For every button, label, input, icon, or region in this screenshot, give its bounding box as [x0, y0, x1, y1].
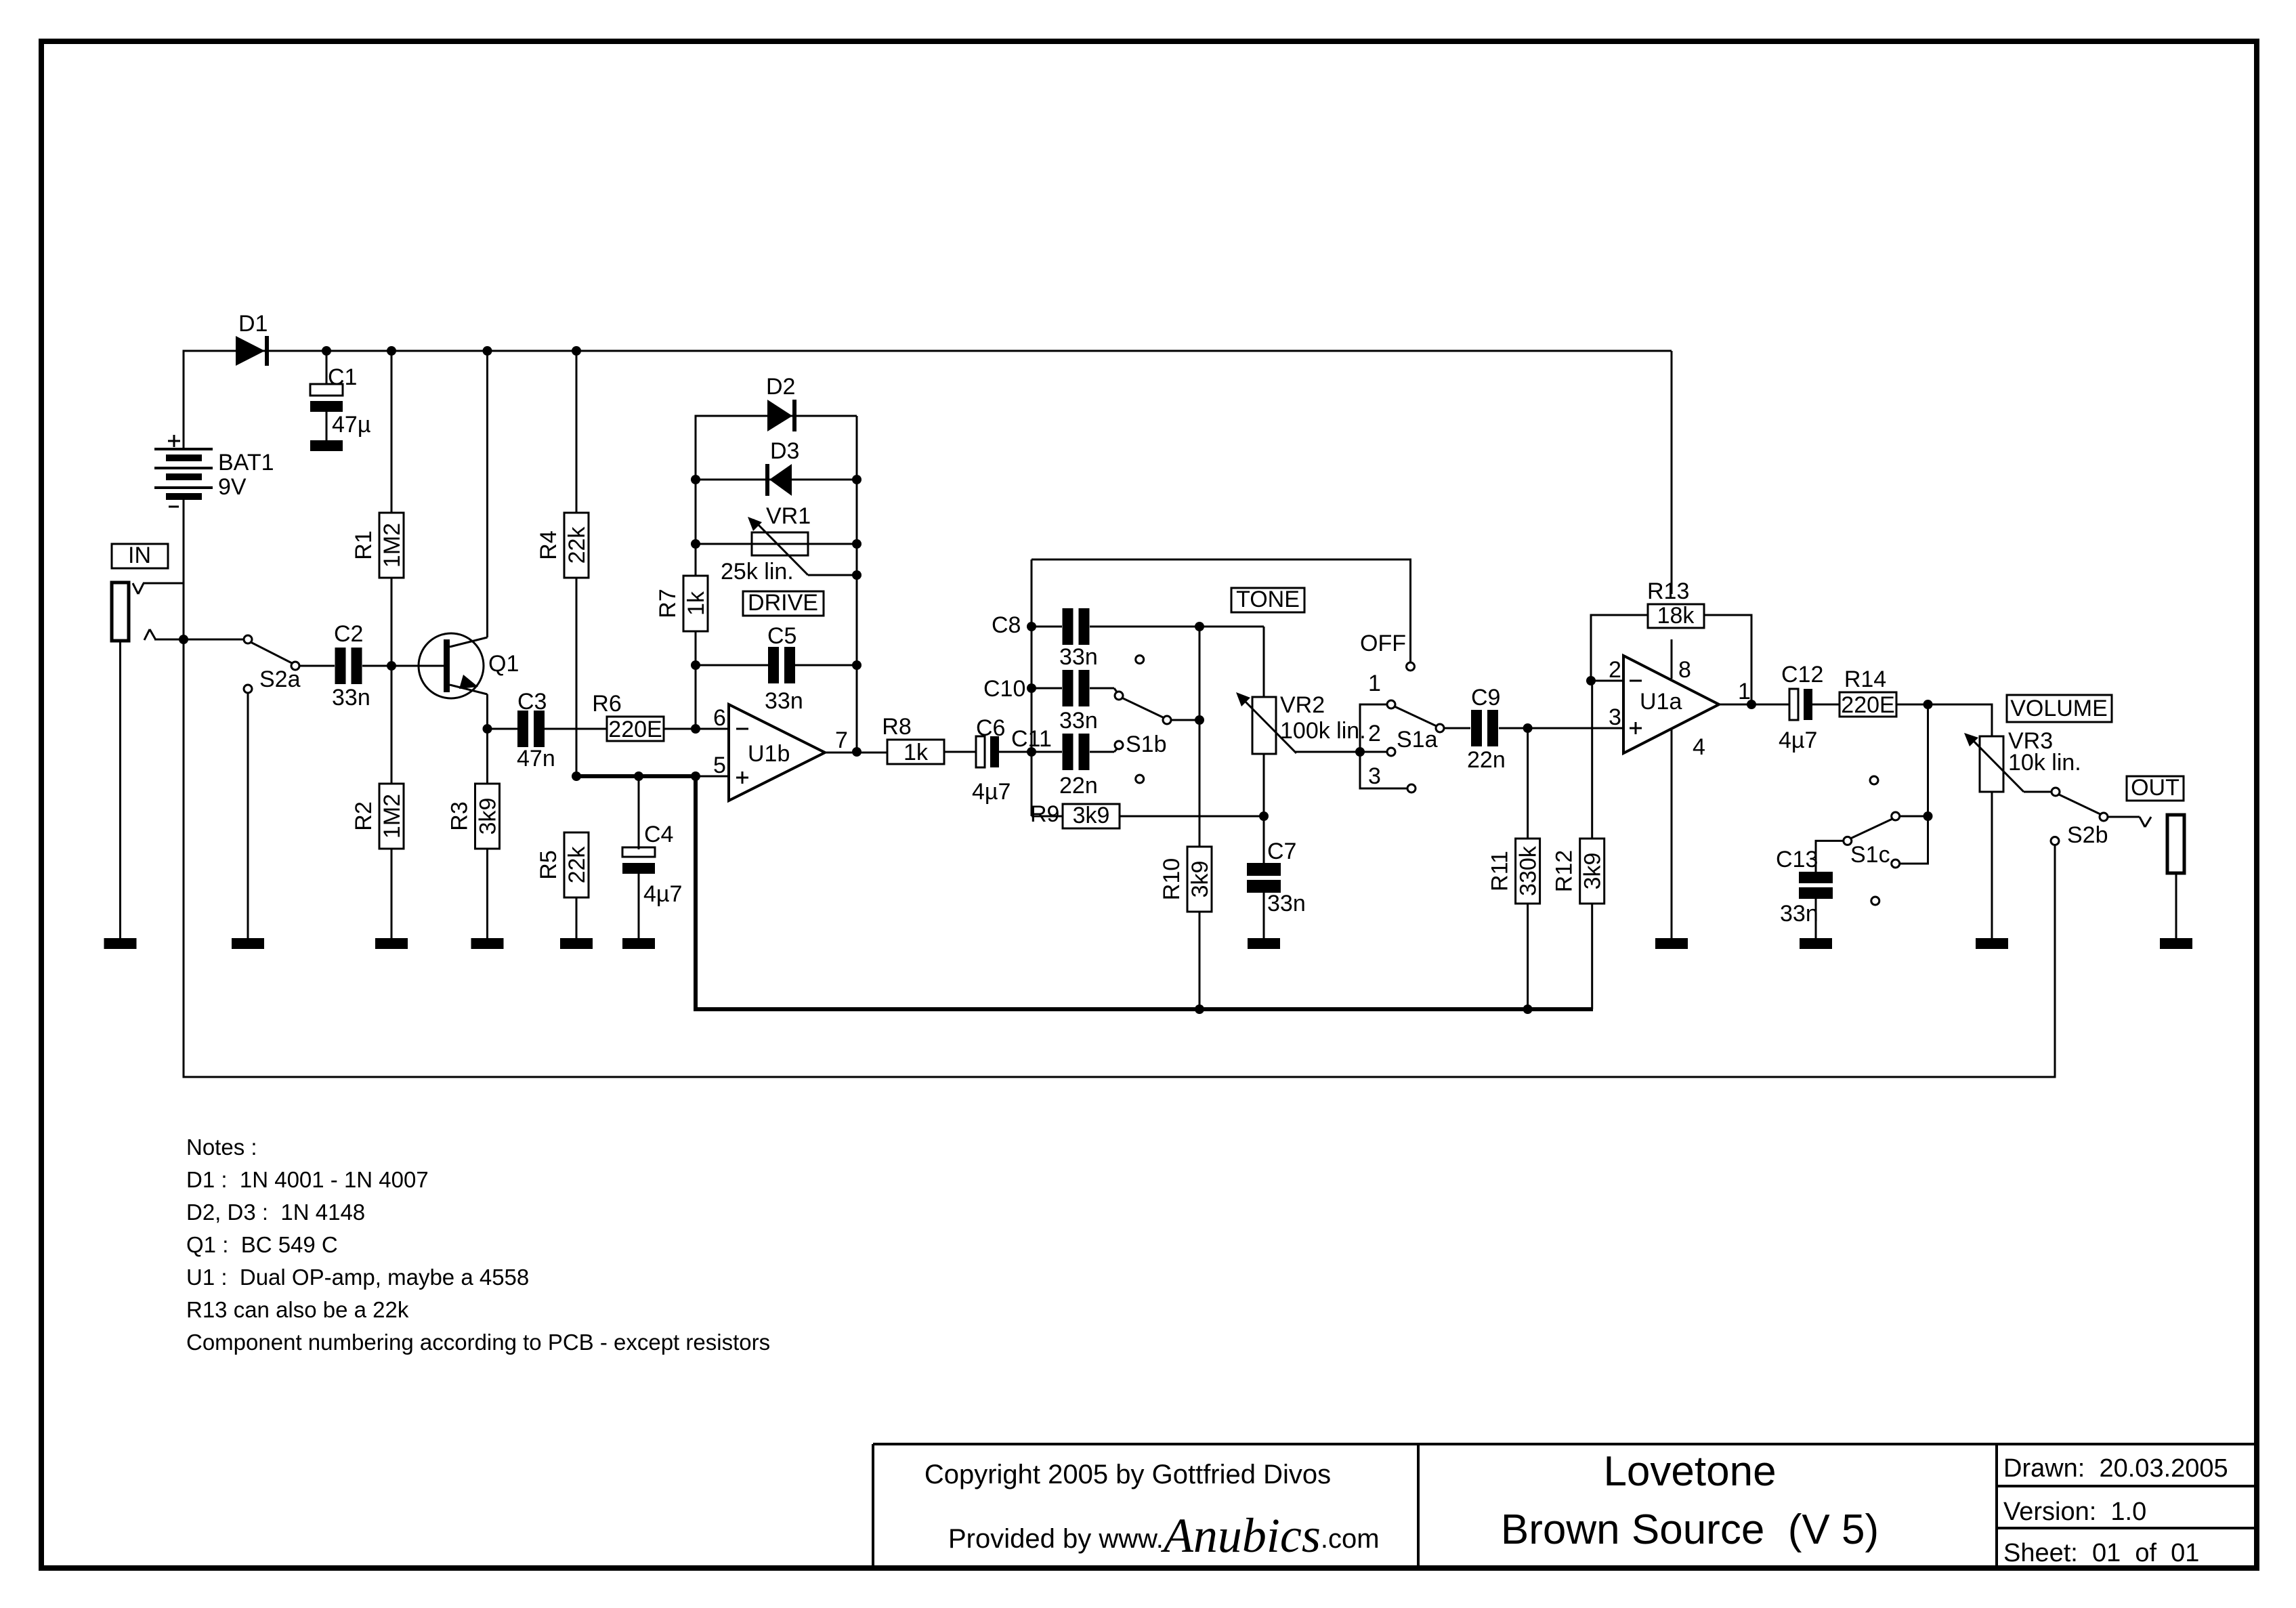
resistor R5 [536, 832, 590, 938]
ground [1655, 938, 1688, 949]
wire [1991, 792, 1993, 938]
switch S1a [1360, 631, 1444, 792]
switch S1b [1115, 656, 1171, 783]
wire [695, 665, 697, 729]
wire [1896, 704, 1992, 736]
ground [104, 938, 137, 949]
wire [1816, 841, 1844, 872]
wire [119, 641, 121, 938]
ground [375, 938, 408, 949]
wire feedback left [1591, 615, 1648, 681]
svg-text:BAT1: BAT1 [218, 450, 274, 475]
svg-text:R13 can also be a 22k: R13 can also be a 22k [186, 1297, 409, 1322]
svg-text:D1: D1 [238, 311, 268, 337]
svg-text:U1 : Dual OP-amp, maybe a 455: U1 : Dual OP-amp, maybe a 4558 [186, 1265, 529, 1290]
transistor Q1 [419, 633, 519, 698]
op-amp U1b [713, 704, 848, 801]
svg-text:Lovetone: Lovetone [1603, 1448, 1776, 1495]
svg-text:47µ: 47µ [332, 412, 370, 438]
svg-text:VR2: VR2 [1280, 692, 1325, 718]
svg-text:OUT: OUT [2131, 775, 2180, 801]
node vref C4 [634, 771, 643, 781]
wire [1120, 816, 1264, 818]
svg-text:33n: 33n [1780, 901, 1819, 927]
node pin2 [1586, 676, 1596, 685]
wire [695, 480, 697, 544]
svg-text:8: 8 [1678, 657, 1691, 683]
svg-text:R8: R8 [882, 714, 911, 740]
svg-text:C13: C13 [1776, 847, 1818, 872]
capacitor C12 [1779, 662, 1823, 753]
wire [299, 665, 335, 667]
node C9 out [1523, 723, 1533, 733]
svg-text:3: 3 [1368, 763, 1381, 789]
wire [696, 543, 857, 545]
wire [247, 693, 249, 938]
svg-text:Notes :: Notes : [186, 1135, 257, 1160]
node C8 left [1027, 622, 1036, 631]
svg-text:22n: 22n [1059, 773, 1098, 799]
svg-text:R2: R2 [351, 801, 377, 830]
DRIVE label box [743, 590, 824, 616]
capacitor C7 [1247, 816, 1306, 938]
svg-text:3k9: 3k9 [1187, 861, 1213, 898]
wire [2140, 817, 2151, 827]
resistor R13 [1647, 578, 1704, 629]
svg-text:330k: 330k [1516, 845, 1542, 896]
svg-text:R14: R14 [1844, 667, 1886, 692]
wire bypass run [184, 639, 2055, 1077]
svg-text:1: 1 [1368, 671, 1381, 696]
capacitor C1 [310, 351, 370, 440]
svg-text:Version: 1.0: Version: 1.0 [2003, 1498, 2146, 1526]
node pin7 [852, 747, 862, 757]
svg-text:7: 7 [835, 727, 848, 753]
node vref corner [691, 771, 700, 781]
capacitor C8 [992, 608, 1098, 670]
svg-text:C3: C3 [517, 689, 547, 715]
svg-text:1k: 1k [683, 591, 709, 616]
wire [1032, 626, 1062, 628]
node VR1 right [852, 539, 862, 549]
svg-text:R3: R3 [447, 801, 473, 830]
ground [560, 938, 593, 949]
wire [486, 694, 488, 729]
svg-text:OFF: OFF [1360, 631, 1406, 656]
svg-text:Component numbering according: Component numbering according to PCB - e… [186, 1330, 770, 1355]
switch S2a [244, 635, 301, 693]
svg-text:R4: R4 [536, 530, 561, 559]
node VR1 left [691, 539, 700, 549]
svg-text:4µ7: 4µ7 [1779, 727, 1817, 753]
node pin1 [1747, 700, 1756, 709]
node S1a common [1355, 747, 1365, 757]
capacitor C6 [972, 715, 1011, 805]
resistor R6 [592, 691, 664, 742]
svg-text:25k lin.: 25k lin. [721, 559, 794, 585]
svg-text:4: 4 [1693, 734, 1705, 760]
ground [2160, 938, 2192, 949]
wire [144, 629, 155, 640]
wire [944, 751, 976, 753]
resistor R1 [351, 351, 405, 666]
svg-text:U1b: U1b [748, 741, 790, 767]
capacitor C10 [983, 670, 1098, 734]
wire [2175, 873, 2177, 938]
svg-text:2: 2 [1609, 657, 1621, 683]
svg-text:S1a: S1a [1397, 727, 1438, 753]
svg-text:D1 : 1N 4001 - 1N 4007: D1 : 1N 4001 - 1N 4007 [186, 1167, 429, 1192]
wire [825, 752, 887, 754]
wire rail down to pin8 [1671, 351, 1673, 594]
node VR1 wiper right [852, 570, 862, 580]
resistor R8 [882, 714, 944, 765]
wire [696, 416, 857, 480]
node on rail at R1 [387, 346, 396, 356]
node volume top [1923, 700, 1933, 709]
battery BAT1 9V [154, 435, 274, 507]
node VR2 bottom [1259, 811, 1269, 821]
input jack [112, 583, 129, 641]
resistor R11 [1487, 728, 1542, 1009]
svg-text:4µ7: 4µ7 [972, 779, 1011, 805]
wire feedback right [1704, 615, 1751, 704]
svg-text:Q1 : BC 549 C: Q1 : BC 549 C [186, 1232, 338, 1257]
wire [1171, 719, 1199, 721]
capacitor C2 [332, 621, 370, 711]
svg-text:C8: C8 [992, 612, 1021, 638]
capacitor C9 [1467, 685, 1506, 773]
svg-text:18k: 18k [1657, 603, 1695, 629]
diode D1 [236, 311, 269, 366]
wire [1591, 680, 1623, 682]
node pin6 [691, 724, 700, 734]
capacitor C11 [1011, 726, 1098, 799]
capacitor C3 [517, 689, 555, 771]
svg-text:1M2: 1M2 [379, 794, 405, 839]
resistor R12 [1552, 681, 1606, 1009]
wire wiper VR1 [808, 574, 857, 576]
VOLUME label box [2007, 695, 2112, 722]
svg-text:TONE: TONE [1236, 587, 1300, 612]
IN label box [112, 543, 168, 568]
op-amp U1a [1609, 656, 1751, 760]
svg-text:22n: 22n [1467, 747, 1506, 773]
resistor R14 [1840, 667, 1896, 718]
wire [2108, 816, 2140, 818]
resistor R10 [1159, 847, 1213, 1009]
wire [486, 351, 488, 637]
wire vref bus thick [576, 776, 1593, 1009]
wire pin8 stub [1671, 639, 1673, 679]
node on rail at C1 [322, 346, 331, 356]
node C8 right [1195, 622, 1204, 631]
svg-text:33n: 33n [1059, 644, 1098, 670]
svg-text:9V: 9V [218, 474, 247, 500]
wire [696, 776, 729, 778]
svg-text:R10: R10 [1159, 858, 1185, 900]
svg-text:C12: C12 [1781, 662, 1823, 687]
wire [1090, 688, 1118, 693]
resistor R7 [655, 544, 709, 665]
svg-text:C6: C6 [976, 715, 1005, 741]
diode D2 [766, 374, 796, 431]
node on rail at Q1 collector [483, 346, 492, 356]
svg-text:C7: C7 [1267, 839, 1296, 864]
ground [310, 440, 343, 451]
ground [1248, 938, 1280, 949]
svg-text:S1b: S1b [1126, 732, 1167, 757]
switch S1c [1844, 776, 1900, 905]
svg-text:R13: R13 [1647, 578, 1689, 604]
node base [387, 661, 396, 671]
OUT label box [2127, 775, 2184, 801]
svg-text:33n: 33n [1059, 708, 1098, 734]
svg-text:VOLUME: VOLUME [2010, 696, 2108, 721]
diode D3 [765, 438, 799, 496]
wire [795, 664, 857, 667]
node S1b pole [1195, 715, 1204, 725]
svg-text:33n: 33n [332, 685, 370, 711]
capacitor C5 [765, 623, 803, 714]
svg-text:C11: C11 [1011, 726, 1052, 752]
notes text [186, 1135, 770, 1355]
wire [1360, 751, 1387, 753]
svg-text:220E: 220E [608, 717, 662, 742]
node C5 right [852, 660, 862, 670]
svg-text:D2: D2 [766, 374, 795, 400]
capacitor C13 [1776, 847, 1833, 938]
svg-text:C2: C2 [334, 621, 363, 647]
node S1c [1923, 811, 1933, 821]
wire [1032, 816, 1063, 818]
potentiometer VR2 [1236, 692, 1366, 754]
ground [232, 938, 264, 949]
wire pin4 stub [1671, 729, 1673, 938]
wire [1812, 704, 1840, 706]
svg-text:C1: C1 [328, 364, 357, 390]
wire wiper VR2 [1295, 751, 1360, 753]
svg-text:Q1: Q1 [488, 651, 519, 677]
wire [696, 479, 857, 481]
svg-text:33n: 33n [765, 688, 803, 714]
svg-text:C9: C9 [1471, 685, 1500, 711]
ground [622, 938, 655, 949]
resistor R3 [447, 729, 501, 938]
node D3 left [691, 475, 700, 484]
node vref R4R5 [572, 771, 581, 781]
wire [1444, 727, 1470, 729]
node C10 left [1027, 683, 1036, 693]
wire [999, 751, 1032, 753]
wire [1499, 727, 1623, 729]
svg-text:Copyright 2005 by Gottfried Di: Copyright 2005 by Gottfried Divos [924, 1460, 1331, 1489]
wire [362, 665, 446, 667]
switch S2b [2051, 788, 2108, 848]
svg-text:4µ7: 4µ7 [643, 881, 682, 907]
potentiometer VR1 [721, 503, 811, 585]
svg-text:R6: R6 [592, 691, 621, 717]
node D3 right [852, 475, 862, 484]
svg-text:S2a: S2a [259, 667, 301, 692]
svg-text:5: 5 [713, 753, 726, 778]
wire [1927, 704, 1929, 816]
svg-text:R12: R12 [1552, 850, 1577, 892]
svg-text:47n: 47n [517, 746, 555, 771]
node R10 bus [1195, 1004, 1204, 1014]
svg-text:3k9: 3k9 [1580, 853, 1606, 890]
node A input [179, 635, 188, 644]
svg-text:DRIVE: DRIVE [748, 590, 818, 616]
wire [1090, 626, 1264, 628]
svg-text:220E: 220E [1841, 692, 1894, 718]
svg-text:R11: R11 [1487, 851, 1513, 891]
potentiometer VR3 [1964, 728, 2081, 792]
wire [664, 728, 729, 730]
wire [1719, 704, 1789, 706]
svg-text:6: 6 [713, 705, 726, 731]
wire [143, 583, 184, 585]
svg-text:3: 3 [1609, 704, 1621, 730]
svg-text:S1c: S1c [1850, 842, 1890, 868]
svg-text:R1: R1 [351, 530, 377, 559]
wire [488, 728, 518, 730]
svg-text:Drawn: 20.03.2005: Drawn: 20.03.2005 [2003, 1454, 2228, 1483]
wire [1090, 748, 1118, 752]
capacitor C4 [622, 776, 682, 938]
wire [1899, 816, 1928, 864]
wire [1899, 816, 1928, 818]
ground [1800, 938, 1832, 949]
node on rail at R4 [572, 346, 581, 356]
svg-text:IN: IN [128, 543, 151, 568]
svg-text:3k9: 3k9 [1073, 803, 1110, 828]
wire [1263, 754, 1265, 816]
svg-text:2: 2 [1368, 721, 1381, 746]
wire [696, 664, 768, 667]
svg-text:C4: C4 [644, 822, 673, 847]
svg-text:22k: 22k [564, 526, 590, 564]
node C5 left [691, 660, 700, 670]
wire [1032, 751, 1062, 753]
svg-text:C10: C10 [983, 676, 1025, 702]
node C6 out [1027, 747, 1036, 757]
resistor R4 [536, 351, 590, 776]
svg-text:10k lin.: 10k lin. [2008, 750, 2081, 776]
svg-text:R7: R7 [655, 589, 681, 618]
svg-text:U1a: U1a [1640, 689, 1682, 715]
wire [1263, 627, 1265, 697]
wire [133, 583, 144, 594]
wire right branch vertical [856, 416, 858, 752]
svg-text:R5: R5 [536, 850, 561, 879]
svg-text:3k9: 3k9 [475, 798, 501, 835]
svg-text:Brown Source (V 5): Brown Source (V 5) [1501, 1506, 1879, 1553]
wire [545, 728, 607, 730]
wire [183, 500, 185, 639]
svg-text:100k lin.: 100k lin. [1280, 718, 1366, 744]
svg-text:1M2: 1M2 [379, 523, 405, 568]
wire tone top [1032, 559, 1411, 662]
svg-text:1k: 1k [903, 740, 929, 765]
resistor R9 [1030, 801, 1120, 828]
svg-text:S2b: S2b [2067, 822, 2108, 848]
svg-text:22k: 22k [564, 846, 590, 884]
wire wiper VR3 [2024, 791, 2051, 793]
svg-text:Sheet: 01 of 01: Sheet: 01 of 01 [2003, 1539, 2199, 1567]
svg-text:D3: D3 [770, 438, 799, 464]
ground [471, 938, 504, 949]
svg-text:VR1: VR1 [766, 503, 811, 529]
svg-text:D2, D3 : 1N 4148: D2, D3 : 1N 4148 [186, 1200, 365, 1225]
svg-text:R9: R9 [1030, 801, 1059, 827]
wire [154, 639, 248, 641]
ground [1976, 938, 2008, 949]
switch S1a bracket [1360, 704, 1407, 788]
node emitter [483, 724, 492, 734]
wire [184, 351, 1672, 449]
TONE label box [1231, 587, 1304, 612]
node R11 bus [1523, 1004, 1533, 1014]
svg-text:33n: 33n [1267, 891, 1306, 916]
title block [873, 1444, 2258, 1569]
output jack [2167, 815, 2184, 873]
wire tone left vertical [1031, 559, 1033, 816]
resistor R2 [351, 666, 405, 938]
svg-text:C5: C5 [767, 623, 796, 649]
wire R10 branch [1199, 627, 1201, 847]
wire [1032, 687, 1062, 690]
